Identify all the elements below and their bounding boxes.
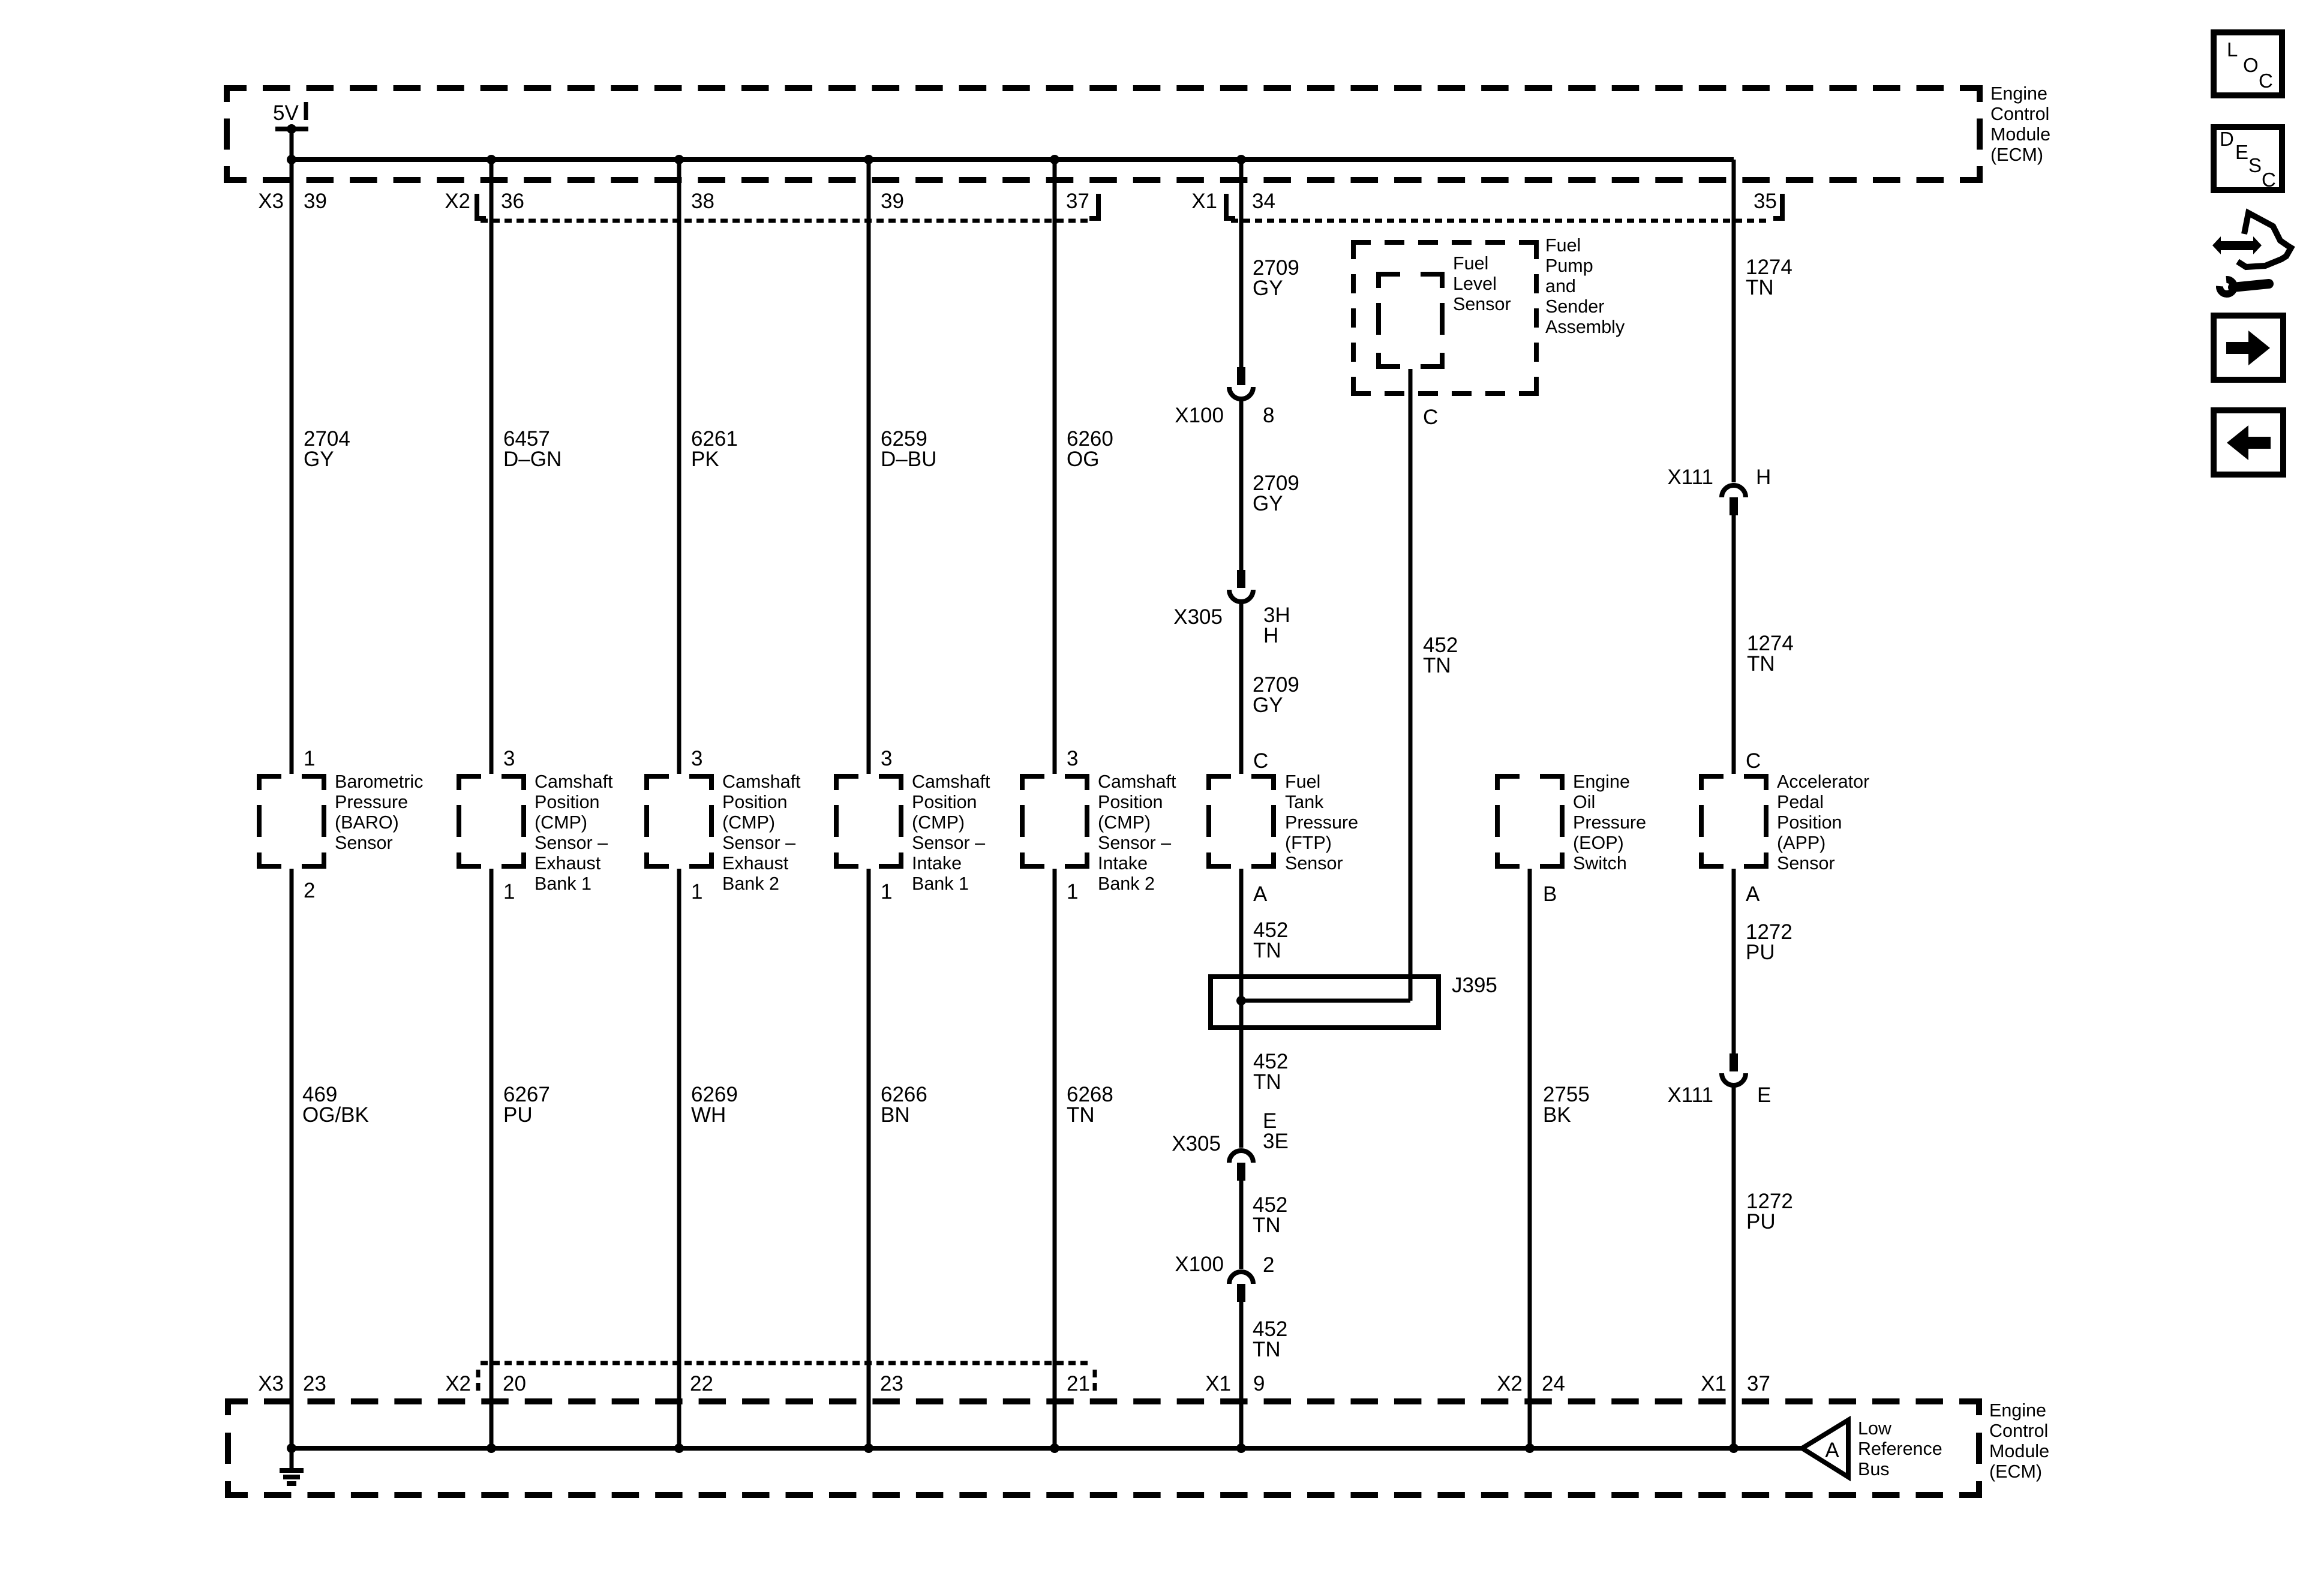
svg-text:Engine: Engine: [1990, 83, 2047, 104]
svg-text:1: 1: [881, 880, 892, 903]
Camshaft Position CMP Sensor Intake Bank 1 box: [834, 774, 903, 869]
svg-text:GY: GY: [1253, 694, 1283, 717]
svg-text:Oil: Oil: [1573, 792, 1595, 812]
wire 2704 GY (BARO 5V): [290, 160, 294, 774]
svg-text:TN: TN: [1067, 1103, 1095, 1127]
wire 452 TN fuel level sensor to J395: [1409, 369, 1413, 1001]
svg-text:A: A: [1746, 882, 1760, 906]
wire 6259 D-BU (CMP intake bank1): [867, 160, 871, 774]
svg-text:3: 3: [503, 747, 515, 770]
svg-text:Camshaft: Camshaft: [912, 772, 990, 792]
wire 452 TN X305 to X100: [1239, 1181, 1244, 1269]
LOC reference box icon: [2214, 32, 2282, 95]
svg-text:(APP): (APP): [1777, 833, 1825, 853]
svg-text:and: and: [1545, 276, 1576, 296]
svg-text:S: S: [2248, 154, 2262, 176]
svg-text:X3: X3: [258, 1372, 284, 1395]
svg-text:TN: TN: [1253, 1338, 1281, 1361]
wire 1274 TN X111 to APP sensor: [1732, 515, 1736, 774]
junction on low ref bus x=486: [287, 1443, 296, 1453]
svg-text:H: H: [1263, 624, 1278, 647]
svg-text:Fuel: Fuel: [1545, 235, 1581, 256]
svg-text:C: C: [1423, 406, 1438, 429]
Fuel Tank Pressure FTP Sensor box: [1206, 774, 1276, 869]
svg-text:3: 3: [881, 747, 892, 770]
svg-text:X111: X111: [1667, 466, 1713, 489]
svg-text:GY: GY: [304, 448, 334, 471]
svg-text:B: B: [1543, 882, 1557, 906]
svg-text:Pressure: Pressure: [335, 792, 408, 812]
svg-text:A: A: [1825, 1439, 1839, 1462]
svg-text:5V: 5V: [273, 101, 299, 125]
svg-text:Pedal: Pedal: [1777, 792, 1824, 812]
svg-text:TN: TN: [1253, 1070, 1281, 1094]
svg-text:X1: X1: [1191, 190, 1217, 213]
svg-text:3E: 3E: [1263, 1130, 1289, 1153]
svg-text:Camshaft: Camshaft: [1098, 772, 1176, 792]
wire 1272 PU APP sensor A to X111: [1732, 869, 1736, 1053]
inline connector X100 pin 8: [1237, 367, 1245, 385]
Camshaft Position CMP Sensor Intake Bank 2 box: [1020, 774, 1089, 869]
forward reference arrow box icon: [2214, 316, 2283, 380]
svg-text:L: L: [2227, 38, 2238, 61]
svg-text:39: 39: [304, 190, 327, 213]
wire 2755 BK EOP switch B to ECM: [1528, 869, 1532, 1448]
svg-text:E: E: [1757, 1083, 1771, 1107]
svg-text:Switch: Switch: [1573, 853, 1627, 873]
svg-text:Sensor: Sensor: [1453, 294, 1511, 314]
svg-text:PU: PU: [503, 1103, 533, 1127]
svg-text:Module: Module: [1990, 124, 2050, 145]
svg-text:35: 35: [1753, 190, 1777, 213]
svg-text:PU: PU: [1746, 1210, 1776, 1233]
svg-text:Pump: Pump: [1545, 256, 1593, 276]
junction on low ref bus x=2069: [1236, 1443, 1246, 1453]
Camshaft Position CMP Sensor Exhaust Bank 1 box: [457, 774, 526, 869]
svg-text:20: 20: [503, 1372, 526, 1395]
X2 connector dotted outline (top): [477, 194, 486, 218]
wire 2709 GY segment X305 to FTP sensor: [1239, 601, 1244, 774]
wire 452 TN FTP sensor A to X305: [1239, 869, 1244, 1148]
svg-text:Position: Position: [535, 792, 600, 812]
svg-text:Position: Position: [722, 792, 788, 812]
wire 2709 GY segment X100 to X305: [1239, 398, 1244, 570]
wire 6269 WH: [677, 869, 681, 1448]
svg-text:C: C: [2262, 169, 2276, 191]
svg-text:C: C: [2259, 70, 2273, 92]
junction on 5V bus x=486: [287, 155, 296, 164]
Engine Oil Pressure EOP Switch box: [1495, 774, 1565, 869]
svg-text:X305: X305: [1173, 605, 1223, 629]
svg-text:Camshaft: Camshaft: [535, 772, 613, 792]
svg-text:GY: GY: [1253, 277, 1283, 300]
svg-text:H: H: [1756, 466, 1771, 489]
junction on low ref bus x=819: [487, 1443, 496, 1453]
ECM top module box (Engine Control Module): [227, 88, 247, 102]
svg-text:Sensor –: Sensor –: [912, 833, 985, 853]
svg-text:X111: X111: [1667, 1083, 1713, 1107]
svg-text:Fuel: Fuel: [1285, 772, 1320, 792]
wire 452 TN X100 to ECM pin 9: [1239, 1302, 1244, 1448]
junction on low ref bus x=2890: [1729, 1443, 1739, 1453]
svg-text:22: 22: [690, 1372, 713, 1395]
svg-text:1: 1: [304, 747, 315, 770]
svg-text:Control: Control: [1990, 104, 2049, 124]
svg-text:X3: X3: [258, 190, 284, 213]
svg-text:O: O: [2243, 54, 2259, 76]
junction on low ref bus x=1132: [674, 1443, 684, 1453]
svg-text:Camshaft: Camshaft: [722, 772, 801, 792]
Accelerator Pedal Position APP Sensor box: [1699, 774, 1768, 869]
svg-text:(EOP): (EOP): [1573, 833, 1624, 853]
svg-text:X305: X305: [1172, 1132, 1221, 1155]
svg-text:X2: X2: [445, 190, 470, 213]
wire 1274 TN ECM pin35 down right side: [1732, 160, 1736, 482]
junction on low ref bus x=1758: [1050, 1443, 1059, 1453]
junction on low ref bus x=2550: [1525, 1443, 1535, 1453]
junction on low ref bus x=1448: [864, 1443, 873, 1453]
inline connector X111 pin E: [1730, 1053, 1738, 1071]
X1 connector dotted outline (top): [1226, 194, 1235, 218]
svg-text:Sensor –: Sensor –: [1098, 833, 1171, 853]
wire 6267 PU: [490, 869, 494, 1448]
svg-text:Bank 1: Bank 1: [535, 873, 591, 894]
svg-text:Bus: Bus: [1858, 1459, 1890, 1479]
svg-text:X100: X100: [1175, 1253, 1224, 1276]
inline connector X111 pin H: [1722, 485, 1746, 497]
svg-text:23: 23: [880, 1372, 903, 1395]
svg-text:X2: X2: [445, 1372, 471, 1395]
svg-text:1: 1: [1067, 880, 1078, 903]
X2 connector dotted outline (bottom): [481, 1361, 1088, 1365]
svg-text:A: A: [1253, 882, 1268, 906]
svg-text:PK: PK: [691, 448, 719, 471]
svg-text:(FTP): (FTP): [1285, 833, 1332, 853]
wire 6261 PK (CMP exhaust bank2): [677, 160, 681, 774]
splice pack J395: [1211, 977, 1439, 1028]
wire 2709 GY segment ECM to X100: [1239, 160, 1244, 367]
DESC reference box icon: [2214, 127, 2282, 190]
svg-text:9: 9: [1253, 1372, 1265, 1395]
svg-text:Sender: Sender: [1545, 296, 1604, 317]
svg-text:38: 38: [691, 190, 714, 213]
ground symbol inside ECM: [290, 1448, 294, 1470]
svg-text:Pressure: Pressure: [1573, 812, 1646, 833]
svg-text:Assembly: Assembly: [1545, 317, 1625, 337]
Fuel Level Sensor dashed box: [1376, 272, 1445, 369]
svg-text:Sensor: Sensor: [335, 833, 393, 853]
harness routing icon (hose with double arrow and wrench): [2238, 213, 2291, 267]
svg-text:TN: TN: [1423, 654, 1451, 677]
svg-text:Low: Low: [1858, 1418, 1892, 1439]
svg-text:1: 1: [691, 880, 702, 903]
svg-text:GY: GY: [1253, 492, 1283, 515]
svg-text:(CMP): (CMP): [535, 812, 587, 833]
junction on 5V bus x=1758: [1050, 155, 1059, 164]
svg-text:Sensor: Sensor: [1285, 853, 1343, 873]
svg-text:36: 36: [501, 190, 524, 213]
svg-text:(CMP): (CMP): [1098, 812, 1151, 833]
svg-text:D–BU: D–BU: [881, 448, 936, 471]
svg-text:1: 1: [503, 880, 515, 903]
svg-text:E: E: [2235, 141, 2248, 163]
svg-text:TN: TN: [1746, 276, 1774, 299]
svg-text:(CMP): (CMP): [722, 812, 775, 833]
svg-text:Position: Position: [912, 792, 977, 812]
svg-text:(CMP): (CMP): [912, 812, 965, 833]
svg-text:X1: X1: [1205, 1372, 1231, 1395]
svg-text:37: 37: [1066, 190, 1089, 213]
svg-text:Engine: Engine: [1573, 772, 1630, 792]
backward reference arrow box icon: [2214, 410, 2283, 475]
svg-text:Exhaust: Exhaust: [722, 853, 789, 873]
wire 6457 D-GN (CMP exhaust bank1 signal): [490, 160, 494, 774]
svg-text:Accelerator: Accelerator: [1777, 772, 1869, 792]
low reference bus triangle A: [1802, 1420, 1848, 1477]
svg-text:D–GN: D–GN: [503, 448, 562, 471]
ECM bottom module box: [228, 1401, 248, 1415]
wire 6260 OG (CMP intake bank2): [1053, 160, 1057, 774]
junction on 5V bus x=1132: [674, 155, 684, 164]
svg-text:39: 39: [881, 190, 904, 213]
svg-text:2: 2: [304, 879, 315, 902]
wire 1272 PU X111 to ECM pin 37: [1732, 1085, 1736, 1448]
svg-text:X2: X2: [1497, 1372, 1523, 1395]
svg-text:Level: Level: [1453, 274, 1497, 294]
svg-text:Module: Module: [1989, 1441, 2049, 1461]
svg-text:Barometric: Barometric: [335, 772, 423, 792]
svg-text:Sensor: Sensor: [1777, 853, 1835, 873]
inline connector X305 pin 3H H: [1237, 570, 1245, 588]
Fuel Pump and Sender Assembly dashed box: [1351, 240, 1539, 245]
svg-text:3: 3: [691, 747, 702, 770]
svg-text:Bank 1: Bank 1: [912, 873, 969, 894]
svg-text:Position: Position: [1098, 792, 1163, 812]
svg-text:X100: X100: [1175, 404, 1224, 427]
svg-text:Sensor –: Sensor –: [722, 833, 795, 853]
svg-text:Fuel: Fuel: [1453, 253, 1488, 274]
low reference bus (bottom): [292, 1446, 1802, 1451]
J395 internal jumper from fuel level wire: [1241, 999, 1410, 1003]
svg-text:TN: TN: [1253, 939, 1281, 962]
svg-text:2: 2: [1263, 1253, 1274, 1277]
svg-text:37: 37: [1747, 1372, 1770, 1395]
svg-text:Bank 2: Bank 2: [1098, 873, 1155, 894]
junction on 5V bus x=1448: [864, 155, 873, 164]
Camshaft Position CMP Sensor Exhaust Bank 2 box: [644, 774, 714, 869]
svg-text:Tank: Tank: [1285, 792, 1324, 812]
svg-text:Control: Control: [1989, 1421, 2048, 1441]
wire 469 OG/BK BARO low ref: [290, 869, 294, 1448]
svg-text:24: 24: [1542, 1372, 1565, 1395]
junction on 5V bus x=2069: [1236, 155, 1246, 164]
svg-text:J395: J395: [1452, 974, 1497, 997]
Barometric Pressure BARO Sensor box: [257, 774, 326, 869]
svg-text:(BARO): (BARO): [335, 812, 399, 833]
svg-text:Bank 2: Bank 2: [722, 873, 779, 894]
svg-text:TN: TN: [1747, 652, 1775, 676]
svg-text:(ECM): (ECM): [1989, 1461, 2042, 1482]
wire 6268 TN: [1053, 869, 1057, 1448]
svg-text:Reference: Reference: [1858, 1439, 1942, 1459]
svg-text:OG/BK: OG/BK: [302, 1103, 369, 1127]
inline connector X305 pin E 3E: [1229, 1151, 1253, 1163]
svg-text:Sensor –: Sensor –: [535, 833, 608, 853]
svg-text:Intake: Intake: [912, 853, 962, 873]
svg-text:Exhaust: Exhaust: [535, 853, 601, 873]
svg-text:23: 23: [303, 1372, 326, 1395]
svg-text:Pressure: Pressure: [1285, 812, 1358, 833]
svg-text:C: C: [1746, 749, 1761, 773]
svg-text:BK: BK: [1543, 1103, 1571, 1127]
svg-text:3: 3: [1067, 747, 1078, 770]
svg-text:34: 34: [1252, 190, 1275, 213]
svg-text:OG: OG: [1067, 448, 1099, 471]
svg-text:PU: PU: [1746, 941, 1775, 964]
inline connector X100 pin 2: [1229, 1272, 1253, 1284]
svg-text:21: 21: [1067, 1372, 1090, 1395]
svg-text:(ECM): (ECM): [1990, 145, 2043, 165]
svg-text:8: 8: [1263, 404, 1274, 427]
wire 6266 BN: [867, 869, 871, 1448]
svg-text:Position: Position: [1777, 812, 1842, 833]
svg-text:Engine: Engine: [1989, 1400, 2046, 1421]
svg-text:BN: BN: [881, 1103, 910, 1127]
svg-text:D: D: [2220, 128, 2234, 150]
svg-text:X1: X1: [1701, 1372, 1727, 1395]
svg-text:C: C: [1253, 749, 1268, 773]
5V reference bus (top): [292, 157, 1734, 162]
svg-text:WH: WH: [691, 1103, 726, 1127]
junction on 5V bus x=819: [487, 155, 496, 164]
svg-text:Intake: Intake: [1098, 853, 1148, 873]
svg-text:TN: TN: [1253, 1214, 1281, 1237]
